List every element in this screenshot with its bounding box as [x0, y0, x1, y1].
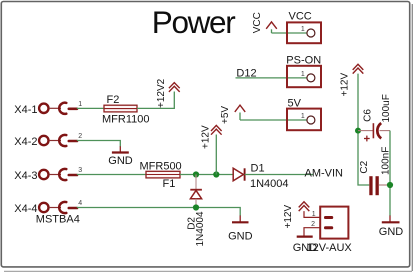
- diode D2: [190, 175, 202, 208]
- diode D1: [233, 163, 288, 190]
- svg-text:1: 1: [312, 211, 316, 218]
- svg-text:C6: C6: [362, 109, 373, 122]
- svg-text:Power: Power: [152, 4, 235, 40]
- connector X4-3 pin: [39, 169, 77, 180]
- fuse F2: [102, 94, 149, 126]
- svg-text:1N4004: 1N4004: [195, 211, 206, 246]
- svg-text:F2: F2: [107, 94, 120, 106]
- junction node C6 tap: [355, 128, 361, 134]
- wire X4-2 to GND: [77, 141, 121, 147]
- capacitor C2: [369, 176, 390, 195]
- svg-text:1: 1: [78, 101, 82, 108]
- svg-text:GND: GND: [108, 155, 133, 167]
- svg-text:+12V: +12V: [340, 73, 351, 97]
- supply VCC arrow: [266, 22, 277, 33]
- svg-text:MSTBA4: MSTBA4: [36, 213, 80, 225]
- svg-text:GND: GND: [379, 226, 404, 238]
- fuse F1: [140, 160, 182, 189]
- wire D12 to PS-ON: [236, 77, 307, 79]
- connector VCC: [287, 11, 321, 44]
- svg-text:100nF: 100nF: [380, 147, 391, 175]
- wire F1 to D1: [180, 174, 233, 176]
- junction node C2 right: [387, 182, 393, 188]
- wire VCC arrow to VCC connector: [272, 32, 307, 34]
- svg-text:1: 1: [301, 113, 305, 120]
- svg-text:+12V: +12V: [283, 205, 294, 229]
- wire +12V riser: [215, 135, 217, 175]
- wire aux pin1: [304, 211, 320, 217]
- connector X4-1 pin: [39, 103, 77, 114]
- svg-text:3: 3: [78, 167, 82, 174]
- wire +12V rail down: [358, 74, 369, 185]
- ground GND aux: [293, 237, 318, 254]
- svg-text:100uF: 100uF: [381, 94, 392, 122]
- connector 12V-AUX box: [320, 207, 348, 239]
- junction node +12V tap: [213, 171, 219, 177]
- svg-text:MFR500: MFR500: [140, 160, 182, 172]
- supply +12V arrow middle: [211, 125, 222, 134]
- svg-text:X4-1: X4-1: [14, 104, 37, 116]
- wire aux pin2 to GND: [304, 228, 320, 237]
- svg-text:F1: F1: [163, 178, 176, 190]
- supply +12V2 arrow: [169, 83, 180, 92]
- svg-text:4: 4: [78, 200, 82, 207]
- supply +12V arrow aux: [299, 202, 310, 211]
- wire X4-4 to GND: [77, 208, 240, 217]
- svg-text:+12V2: +12V2: [156, 78, 167, 108]
- svg-text:GND: GND: [228, 231, 253, 243]
- svg-text:+12V: +12V: [200, 125, 211, 149]
- svg-text:X4-2: X4-2: [14, 136, 37, 148]
- wire D1 to AM-VIN: [245, 174, 313, 176]
- svg-text:X4-4: X4-4: [14, 203, 37, 215]
- svg-text:AM-VIN: AM-VIN: [305, 167, 344, 179]
- svg-text:12V-AUX: 12V-AUX: [307, 242, 353, 254]
- svg-text:PS-ON: PS-ON: [286, 55, 321, 67]
- junction node D2 anode: [193, 204, 199, 210]
- wire F2 to +12V2: [137, 92, 174, 109]
- connector 5V: [287, 97, 321, 130]
- svg-text:+5V: +5V: [220, 106, 231, 124]
- svg-text:MFR1100: MFR1100: [102, 114, 149, 126]
- junction node D2 tap: [193, 171, 199, 177]
- svg-text:C2: C2: [359, 160, 370, 173]
- ground GND right: [379, 216, 404, 239]
- svg-text:5V: 5V: [288, 97, 302, 109]
- supply +5V arrow: [235, 105, 245, 120]
- wire X4-1 to F2: [77, 107, 104, 109]
- svg-text:X4-3: X4-3: [14, 170, 37, 182]
- svg-text:VCC: VCC: [252, 12, 263, 33]
- wire X4-3 to F1: [77, 174, 146, 176]
- supply +12V arrow right: [353, 64, 364, 73]
- svg-text:2: 2: [78, 133, 82, 140]
- connector PS-ON: [286, 55, 321, 88]
- svg-text:D1: D1: [251, 163, 265, 175]
- wire C6 right down: [389, 131, 391, 216]
- svg-text:1: 1: [301, 71, 305, 78]
- capacitor C6: [358, 123, 390, 141]
- svg-text:VCC: VCC: [289, 11, 312, 23]
- ground GND row2: [108, 146, 133, 167]
- svg-text:1: 1: [301, 26, 305, 33]
- connector X4-4 pin: [39, 202, 77, 213]
- connector X4-2 pin: [39, 135, 77, 146]
- ground GND row4: [228, 216, 253, 243]
- svg-text:2: 2: [311, 221, 315, 228]
- svg-text:1N4004: 1N4004: [250, 178, 289, 190]
- wire +5V to 5V connector: [240, 119, 307, 121]
